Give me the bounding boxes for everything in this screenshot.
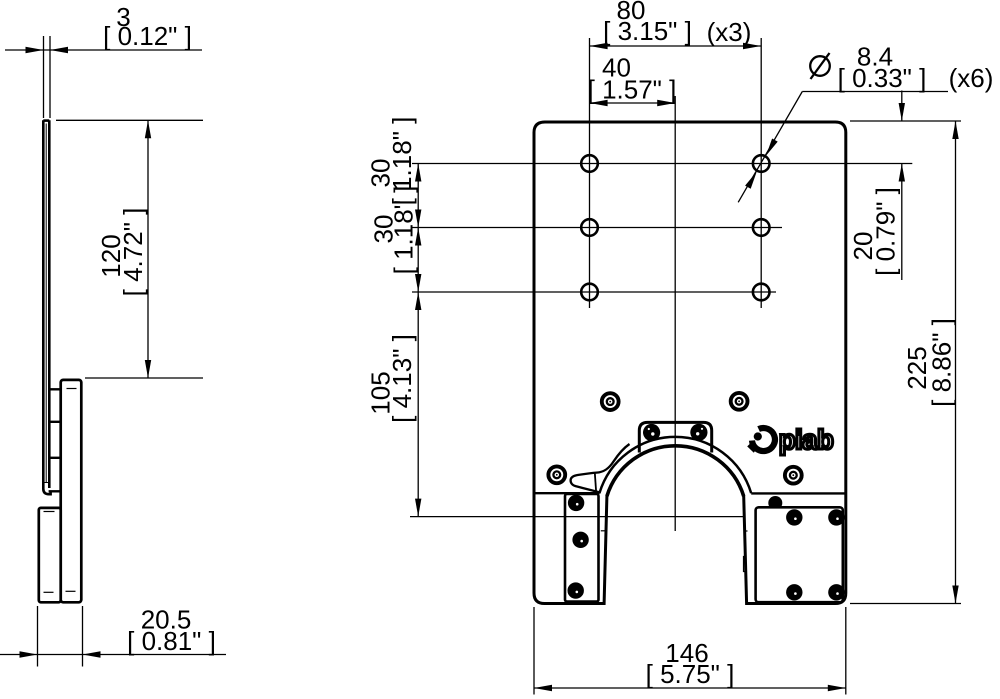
svg-text:piab: piab: [779, 424, 834, 455]
dimension 20 [0.79"]: [848, 91, 905, 281]
cap screw right: [690, 424, 707, 441]
dimension 30 [1.18"] lower: [369, 186, 422, 292]
svg-text:[ 3.15" ]: [ 3.15" ]: [603, 16, 692, 46]
centerline arc vertical: [674, 96, 676, 531]
svg-text:[ 4.72" ]: [ 4.72" ]: [118, 208, 148, 297]
centerline hole row 1: [412, 163, 912, 165]
dimension 40 [1.57"]: [588, 53, 677, 107]
svg-text:[ 1.57" ]: [ 1.57" ]: [588, 75, 677, 105]
svg-text:[ 0.81" ]: [ 0.81" ]: [127, 626, 216, 656]
left bracket: [565, 494, 599, 602]
svg-text:[ 0.33" ]: [ 0.33" ]: [838, 63, 927, 93]
right bracket: [756, 507, 843, 602]
left bracket screw 2: [572, 532, 588, 548]
left bracket screw 1: [568, 495, 584, 511]
svg-text:[ 5.75" ]: [ 5.75" ]: [646, 659, 735, 689]
right bracket screw 2: [828, 509, 844, 525]
svg-text:(x3): (x3): [707, 17, 752, 47]
hole 4: [753, 155, 770, 172]
centerline arc horizontal: [410, 516, 746, 518]
side view plate profile: [43, 120, 50, 494]
left leg ticks: [571, 444, 630, 531]
dimension 225 [8.86"]: [850, 121, 961, 604]
clamp band outer arc: [599, 437, 751, 493]
ring screw 1: [602, 393, 619, 410]
hole 6: [753, 284, 770, 301]
cap screw left: [643, 424, 660, 441]
svg-text:[ 0.79" ]: [ 0.79" ]: [870, 187, 900, 276]
right leg ticks: [744, 531, 748, 572]
dimension 30 [1.18"] upper: [365, 117, 421, 228]
side view mounting block: [61, 380, 82, 602]
ring screw 3: [548, 466, 565, 483]
svg-text:[ 0.12" ]: [ 0.12" ]: [103, 21, 192, 51]
dimension 20.5 [0.81"] block depth: [0, 605, 226, 667]
cutout arc thick: [607, 446, 744, 496]
dimension 120 [4.72"] height: [56, 120, 203, 378]
left bracket screw 3: [568, 582, 584, 598]
svg-text:[ 4.13" ]: [ 4.13" ]: [387, 334, 417, 423]
dimension 105 [4.13"]: [366, 292, 422, 517]
svg-text:[ 8.86" ]: [ 8.86" ]: [927, 318, 957, 407]
svg-text:(x6): (x6): [949, 63, 994, 93]
clamp cap: [639, 422, 711, 452]
side view lower block: [39, 508, 61, 602]
centerline left hole column: [589, 38, 591, 308]
dimension 80 [3.15"] (x3): [590, 0, 761, 49]
hole 2: [581, 219, 598, 236]
right bracket screw 4: [828, 584, 844, 600]
left step line: [535, 492, 599, 494]
dimension 146 [5.75"]: [534, 607, 846, 695]
right bracket screw 1: [786, 509, 802, 525]
diameter leader 8.4 [0.33"] (x6): [738, 42, 993, 203]
right step line: [751, 492, 844, 494]
piab logo: [747, 424, 833, 455]
hole 1: [581, 155, 598, 172]
dimension 3 [0.12"] thickness: [5, 2, 202, 118]
hole 3: [581, 284, 598, 301]
side view spacer ribs: [49, 389, 62, 491]
svg-text:[ 1.18" ]: [ 1.18" ]: [389, 186, 419, 275]
right hidden screw: [768, 496, 782, 510]
hole 5: [753, 219, 770, 236]
centerline right hole column: [760, 38, 762, 308]
ring screw 2: [731, 393, 748, 410]
ring screw 4: [785, 467, 802, 484]
centerline hole row 3: [412, 291, 776, 293]
front view plate outline with cutout: [534, 122, 846, 604]
right bracket screw 3: [786, 584, 802, 600]
centerline hole row 2: [412, 227, 782, 229]
